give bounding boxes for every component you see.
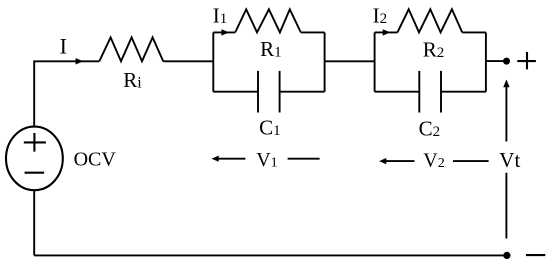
svg-text:Vt: Vt bbox=[499, 148, 520, 172]
wire source bottom to return bbox=[33, 191, 35, 256]
wire RC1 right vertical bbox=[324, 32, 326, 91]
svg-text:V2: V2 bbox=[423, 150, 444, 172]
node negative terminal dot bbox=[503, 252, 510, 259]
wire RC2 right vertical bbox=[485, 32, 487, 91]
svg-text:R2: R2 bbox=[423, 38, 445, 62]
plus terminal mark inside source bbox=[24, 133, 46, 152]
wire RC2 top-right stub bbox=[462, 31, 486, 33]
wire from source top to main node bbox=[34, 61, 99, 126]
svg-text:I: I bbox=[60, 33, 67, 58]
wire bottom return bbox=[34, 254, 504, 256]
svg-text:C1: C1 bbox=[259, 116, 281, 140]
minus terminal symbol bbox=[526, 254, 545, 256]
wire Ri to RC1 bbox=[163, 60, 213, 62]
minus terminal mark inside source bbox=[25, 172, 44, 174]
svg-text:R1: R1 bbox=[260, 37, 282, 61]
wire RC1 top-right stub bbox=[301, 31, 325, 33]
svg-text:C2: C2 bbox=[419, 116, 441, 140]
node positive terminal dot bbox=[503, 58, 510, 65]
wire RC2 left vertical bbox=[374, 32, 376, 91]
svg-text:I2: I2 bbox=[373, 4, 388, 28]
current arrow I bbox=[76, 58, 84, 64]
wire RC1 to RC2 bbox=[325, 60, 375, 62]
current arrow I2 bbox=[383, 29, 391, 35]
voltage arrow V2 bbox=[379, 158, 489, 164]
svg-text:Ri: Ri bbox=[123, 68, 142, 92]
resistor R1 bbox=[235, 9, 301, 32]
voltage arrow Vt bbox=[503, 80, 509, 239]
plus terminal symbol bbox=[517, 52, 536, 70]
wire RC1 top-left stub bbox=[213, 31, 235, 33]
voltage source OCV bbox=[6, 127, 63, 191]
voltage arrow V1 bbox=[212, 156, 320, 162]
svg-text:I1: I1 bbox=[213, 4, 228, 28]
resistor Ri bbox=[99, 37, 163, 61]
wire RC2 top-left stub bbox=[375, 31, 398, 33]
capacitor C1 bbox=[213, 71, 324, 113]
svg-text:OCV: OCV bbox=[74, 148, 117, 170]
current arrow I1 bbox=[221, 29, 229, 35]
resistor R2 bbox=[397, 9, 462, 32]
wire RC1 left vertical bbox=[212, 32, 214, 91]
wire RC2 to positive node bbox=[486, 60, 504, 62]
svg-text:V1: V1 bbox=[256, 149, 277, 171]
capacitor C2 bbox=[375, 71, 486, 113]
